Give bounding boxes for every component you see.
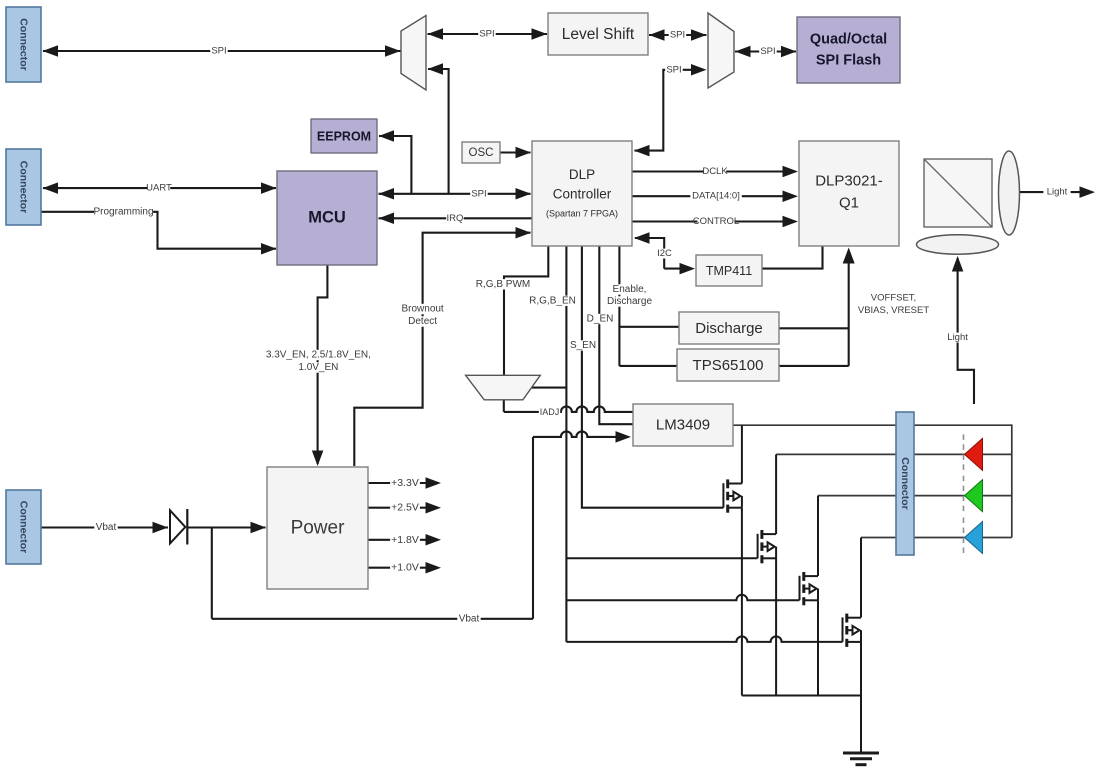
net label I2C <box>656 249 674 259</box>
wire Vbat connector3 to diode to Power <box>41 526 168 528</box>
svg-text:Discharge: Discharge <box>695 320 763 337</box>
svg-text:(Spartan 7 FPGA): (Spartan 7 FPGA) <box>546 209 618 219</box>
power +2.5V output <box>369 507 427 509</box>
svg-text:UART: UART <box>146 183 172 194</box>
net label Brownout Detect <box>401 304 445 314</box>
Level Shift U4 <box>548 13 648 55</box>
svg-text:VBIAS, VRESET: VBIAS, VRESET <box>858 305 929 316</box>
svg-text:DATA[14:0]: DATA[14:0] <box>692 191 740 202</box>
transistor Q1 (shunt FET) <box>723 479 742 512</box>
svg-text:SPI Flash: SPI Flash <box>816 53 881 69</box>
wire EEPROM to SPI net <box>379 136 411 194</box>
net label SPI (mux2-flash) <box>759 47 777 57</box>
wire D_EN from DLP controller to LM3409 <box>599 246 633 424</box>
wire Enable/Discharge from DLP controller <box>618 246 620 366</box>
svg-text:Power: Power <box>291 518 346 539</box>
wire SPI Level Shift to mux2 <box>649 34 707 36</box>
net label DATA[14:0] <box>690 191 742 201</box>
net label Programming <box>94 207 153 217</box>
wire Q2 gate from R,G,B_EN <box>566 557 757 559</box>
ground <box>843 753 879 765</box>
net label 3.3V_EN 2.5/1.8V_EN 1.0V_EN <box>263 350 373 360</box>
wire UART connector2 to MCU <box>43 187 276 189</box>
wire TMP411 to DLP3021 <box>762 246 822 269</box>
svg-text:SPI: SPI <box>479 29 494 40</box>
wire DCLK DLP controller to DLP3021 <box>632 170 785 172</box>
wire MCU to Power enable <box>318 265 328 464</box>
svg-text:+3.3V: +3.3V <box>391 477 419 489</box>
net label IADJ <box>539 407 560 416</box>
net label Vbat (top) <box>94 522 117 532</box>
svg-text:TMP411: TMP411 <box>706 264 752 278</box>
svg-text:R,G,B_EN: R,G,B_EN <box>529 295 576 306</box>
transistor Q3 (green FET) <box>800 572 819 605</box>
svg-text:D_EN: D_EN <box>587 314 614 325</box>
net label SPI (dlp-mux2) <box>665 65 683 75</box>
net label R,G,B_EN <box>531 296 575 306</box>
svg-text:1.0V_EN: 1.0V_EN <box>298 362 338 373</box>
LED blue <box>963 518 965 558</box>
svg-text:SPI: SPI <box>666 64 681 75</box>
svg-text:Brownout: Brownout <box>401 304 443 315</box>
LED green <box>963 476 965 516</box>
TIR prism optics <box>924 159 992 227</box>
svg-text:IRQ: IRQ <box>447 213 464 224</box>
mux U2 (SPI mux left) <box>401 16 426 91</box>
svg-text:EEPROM: EEPROM <box>317 130 371 144</box>
wire IADJ mux3 to LM3409 <box>503 400 505 412</box>
svg-text:Detect: Detect <box>408 316 437 327</box>
connector J2 (UART/Programming) <box>6 149 41 225</box>
Discharge U11 <box>679 312 779 344</box>
svg-text:Vbat: Vbat <box>459 613 480 624</box>
svg-text:Controller: Controller <box>553 187 612 202</box>
power +3.3V output <box>369 482 427 484</box>
svg-text:Light: Light <box>1047 187 1068 198</box>
LM3409 U13 <box>633 404 733 446</box>
wire ground rail <box>742 695 861 697</box>
wire Programming connector2 to MCU <box>41 212 276 249</box>
svg-text:Enable,: Enable, <box>613 284 647 295</box>
svg-text:Level Shift: Level Shift <box>562 26 635 43</box>
svg-text:S_EN: S_EN <box>570 340 596 351</box>
wire green LED cathode line to Q3 drain <box>818 495 1012 497</box>
wire Q4 source to ground <box>860 642 862 753</box>
net label SPI (levelshift-mux2) <box>669 30 687 40</box>
power +1.8V output <box>369 539 427 541</box>
connector J3 (Vbat) <box>6 490 41 564</box>
net label IRQ <box>446 213 464 223</box>
svg-text:Connector: Connector <box>18 501 30 554</box>
svg-text:3.3V_EN, 2.5/1.8V_EN,: 3.3V_EN, 2.5/1.8V_EN, <box>266 350 371 361</box>
wire DATA[14:0] DLP controller to DLP3021 <box>632 195 785 197</box>
diode D1 <box>170 510 185 543</box>
wire Q3 source down to ground rail <box>817 600 819 695</box>
net label Light (output) <box>1043 187 1070 197</box>
svg-text:LM3409: LM3409 <box>656 417 710 434</box>
wire Q2 source down to ground rail <box>775 558 777 695</box>
svg-text:Connector: Connector <box>899 457 911 510</box>
wire SPI DLP controller to mux2 lower input <box>635 70 696 151</box>
svg-text:OSC: OSC <box>469 147 494 159</box>
wire LM3409 to Q1 drain <box>741 425 743 483</box>
wire Vbat bottom run to LM3409 <box>212 618 533 620</box>
net label SPI (mcu-dlp) <box>470 189 488 199</box>
svg-text:VOFFSET,: VOFFSET, <box>871 292 916 303</box>
wire LM3409 output to LED rail <box>733 424 1012 426</box>
wire blue LED cathode line to Q4 drain <box>861 537 1012 539</box>
net label SPI (connector1) <box>210 46 228 56</box>
wire Q4 gate from R,G,B_EN <box>566 636 842 642</box>
svg-text:I2C: I2C <box>657 248 672 259</box>
svg-text:+1.8V: +1.8V <box>391 534 419 546</box>
svg-text:CONTROL: CONTROL <box>693 216 739 227</box>
wire light from LEDs to lens <box>958 258 974 404</box>
transistor Q4 (blue FET) <box>843 614 862 647</box>
svg-text:IADJ: IADJ <box>540 407 560 417</box>
svg-text:TPS65100: TPS65100 <box>693 357 764 374</box>
transistor Q2 (red FET) <box>758 530 777 563</box>
svg-text:Programming: Programming <box>93 206 153 217</box>
wire R,G,B_EN from DLP controller down <box>565 246 567 642</box>
net label DCLK <box>704 167 726 177</box>
wire I2C DLP controller to TMP411 <box>635 238 664 269</box>
net label S_EN <box>571 340 594 350</box>
wire red LED cathode line to Q2 drain <box>776 453 1012 455</box>
EEPROM U6 <box>311 119 377 153</box>
svg-text:R,G,B PWM: R,G,B PWM <box>476 279 530 290</box>
wire brownout detect Power to DLP controller <box>354 233 530 466</box>
wire VOFFSET VBIAS VRESET to DLP3021 <box>848 262 850 366</box>
svg-text:+2.5V: +2.5V <box>391 502 419 514</box>
wire IRQ DLP controller to MCU <box>379 217 533 219</box>
wire mux3 select from R,G,B_EN <box>532 387 567 389</box>
svg-text:DCLK: DCLK <box>702 166 728 177</box>
svg-text:SPI: SPI <box>670 30 685 41</box>
connector J4 (LED) <box>896 412 914 555</box>
wire OSC to DLP controller <box>500 151 531 153</box>
Quad/Octal SPI Flash U5 <box>797 17 900 83</box>
svg-text:Connector: Connector <box>18 18 30 71</box>
svg-text:SPI: SPI <box>211 46 226 57</box>
wire R,G,B PWM DLP controller to mux3 <box>504 246 548 375</box>
wire Q1 source down to ground rail <box>741 508 743 696</box>
net label SPI (mux1-levelshift) <box>478 29 496 39</box>
OSC Y1 <box>462 142 500 163</box>
projection lens (vertical ellipse) <box>999 151 1020 235</box>
svg-text:Light: Light <box>947 332 968 343</box>
net label Vbat (bottom) <box>457 614 480 624</box>
LED red <box>963 434 965 474</box>
wire SPI mux2 to flash <box>735 50 796 52</box>
wire light output <box>1020 191 1081 193</box>
svg-text:+1.0V: +1.0V <box>391 562 419 574</box>
TMP411 U10 <box>696 255 762 286</box>
power +1.0V output <box>369 567 427 569</box>
svg-text:Discharge: Discharge <box>607 296 652 307</box>
net label Enable Discharge <box>610 284 649 294</box>
condenser lens (horizontal ellipse) <box>917 235 999 254</box>
net label CONTROL <box>698 217 735 227</box>
svg-text:MCU: MCU <box>308 209 346 227</box>
wire SPI mux1 to Level Shift <box>428 33 548 35</box>
MCU U7 <box>277 171 377 265</box>
svg-text:DLP: DLP <box>569 167 595 182</box>
wire S_EN from DLP controller to Q1 gate <box>582 246 724 508</box>
svg-text:SPI: SPI <box>760 46 775 57</box>
TPS65100 U12 <box>677 349 779 381</box>
mux U3 (SPI mux right) <box>708 13 734 88</box>
mux3 U15 (PWM mux) <box>466 375 541 400</box>
DLP Controller U8 (Spartan 7 FPGA) <box>532 141 632 246</box>
DLP3021-Q1 U9 <box>799 141 899 246</box>
svg-text:Q1: Q1 <box>839 195 859 212</box>
Power U14 <box>267 467 368 589</box>
net label D_EN <box>588 314 611 324</box>
wire mux1 lower input from DLP SPI net <box>428 69 449 194</box>
svg-text:Vbat: Vbat <box>96 522 117 533</box>
connector J1 (SPI) <box>6 7 41 82</box>
net label R,G,B PWM <box>479 279 528 289</box>
svg-text:DLP3021-: DLP3021- <box>815 173 883 190</box>
svg-text:Quad/Octal: Quad/Octal <box>810 32 887 48</box>
net label Light (LED) <box>944 333 971 343</box>
wire Q3 gate from R,G,B_EN <box>566 595 799 601</box>
svg-text:SPI: SPI <box>471 188 486 199</box>
wire CONTROL DLP controller to DLP3021 <box>632 220 785 222</box>
wire Vbat branch down <box>211 528 213 619</box>
wire SPI MCU to DLP controller <box>379 193 531 195</box>
net label UART <box>148 183 170 193</box>
wire SPI connector1 to mux1 <box>43 50 401 52</box>
svg-text:Connector: Connector <box>18 161 30 214</box>
